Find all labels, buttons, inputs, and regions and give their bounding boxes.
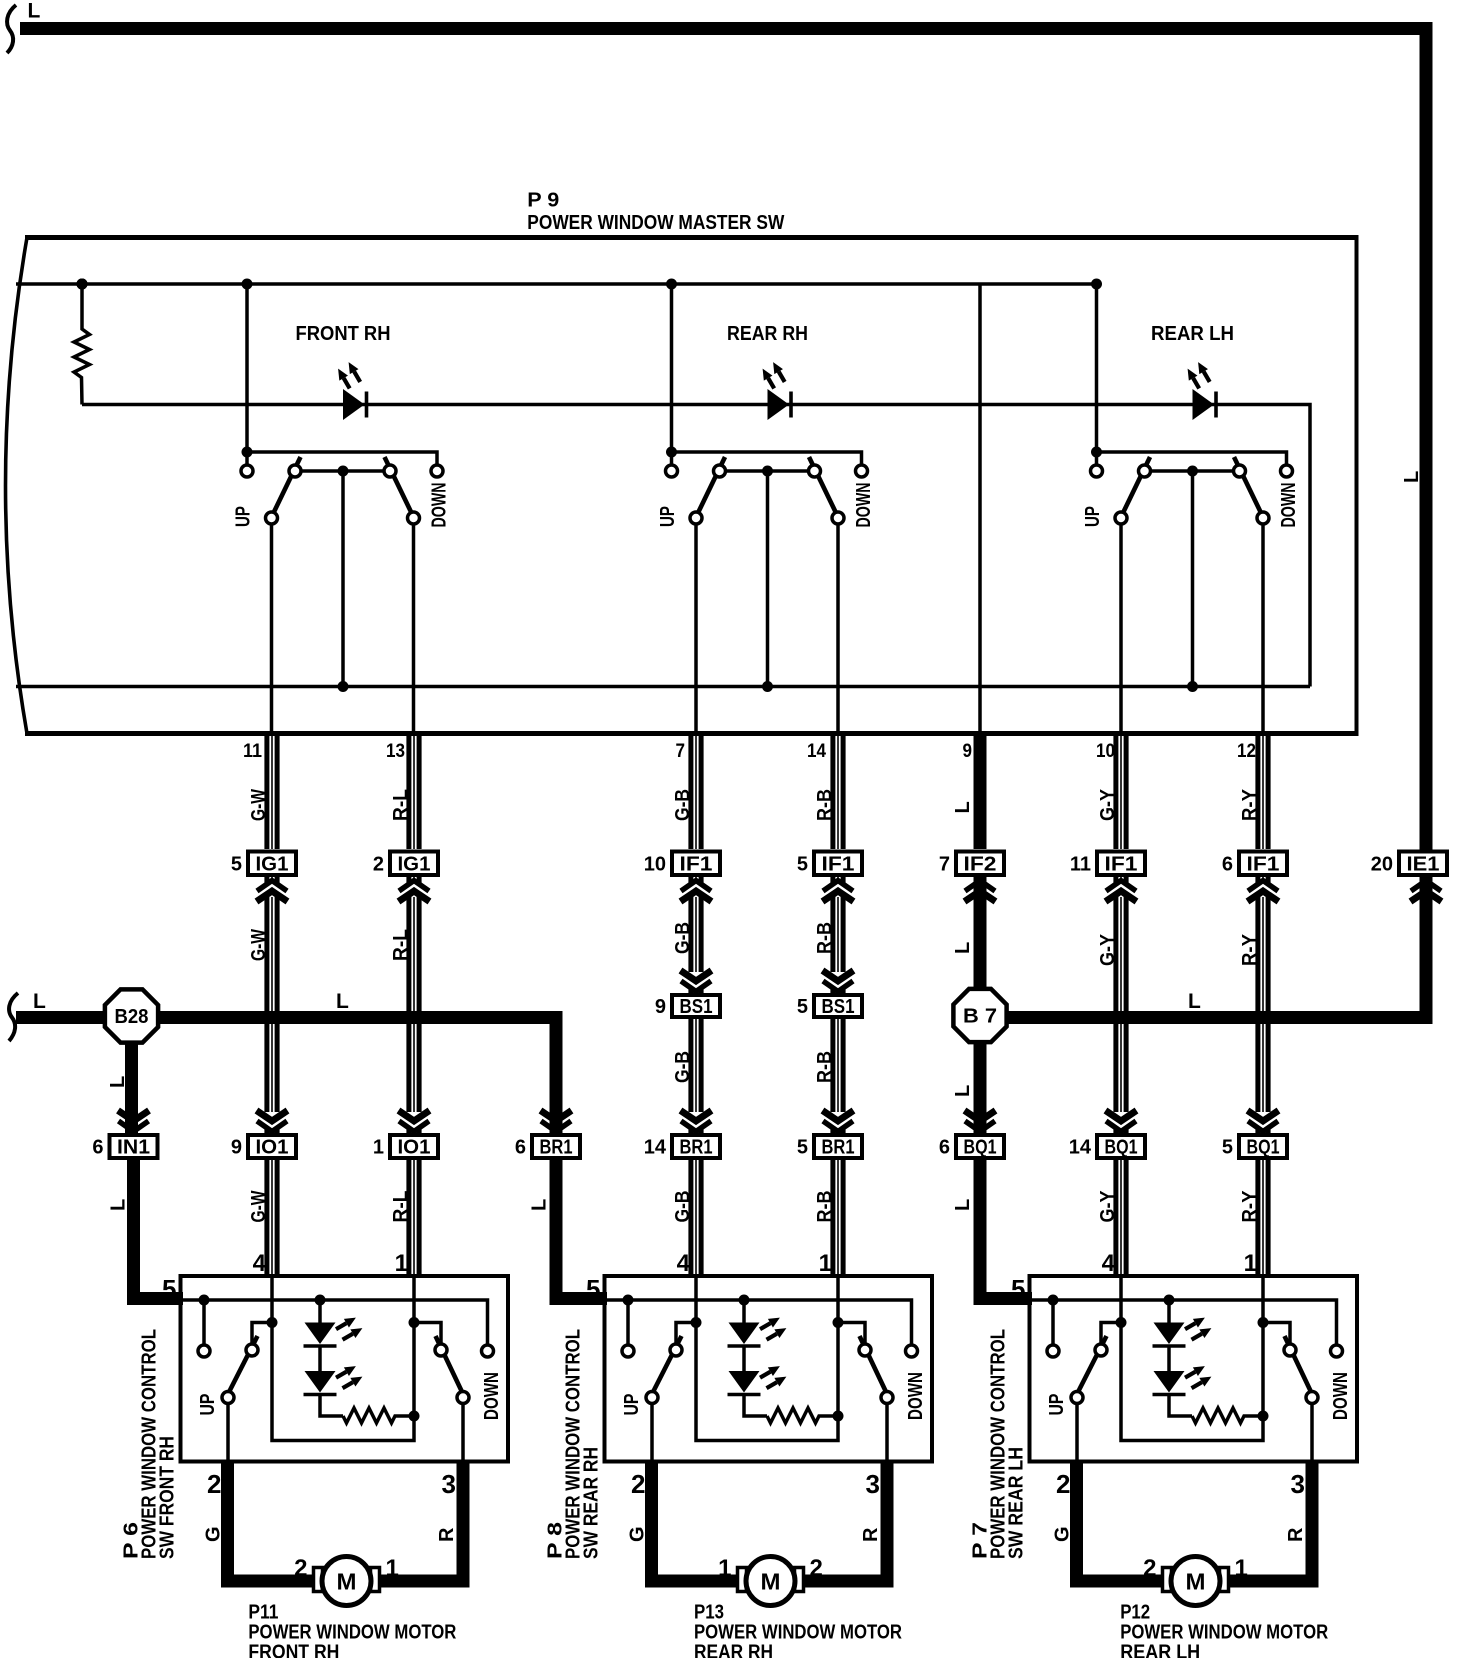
svg-text:7: 7 [676, 741, 686, 762]
svg-text:IE1: IE1 [1407, 853, 1440, 875]
svg-text:UP: UP [233, 506, 255, 527]
svg-text:P11: P11 [248, 1602, 278, 1624]
svg-text:R-Y: R-Y [1239, 1190, 1261, 1223]
svg-text:UP: UP [197, 1394, 219, 1416]
svg-text:L: L [107, 1076, 129, 1088]
svg-text:5: 5 [797, 1137, 808, 1159]
svg-text:G-W: G-W [248, 789, 270, 821]
svg-text:3: 3 [866, 1469, 880, 1499]
svg-text:UP: UP [657, 506, 679, 527]
svg-text:L: L [336, 990, 349, 1013]
svg-text:L: L [952, 1199, 974, 1211]
svg-text:UP: UP [1082, 506, 1104, 527]
svg-text:BQ1: BQ1 [1105, 1137, 1138, 1159]
svg-text:L: L [529, 1199, 551, 1211]
svg-text:20: 20 [1371, 853, 1393, 875]
svg-text:P13: P13 [694, 1602, 724, 1624]
svg-text:4: 4 [253, 1250, 267, 1277]
svg-text:POWER WINDOW MASTER SW: POWER WINDOW MASTER SW [527, 212, 784, 234]
svg-text:POWER WINDOW MOTOR: POWER WINDOW MOTOR [694, 1622, 902, 1644]
svg-text:IF1: IF1 [1105, 853, 1138, 875]
svg-text:3: 3 [442, 1469, 456, 1499]
svg-text:2: 2 [294, 1555, 307, 1582]
svg-text:REAR RH: REAR RH [694, 1642, 773, 1658]
svg-text:L: L [952, 801, 974, 813]
svg-text:R-B: R-B [814, 789, 836, 821]
svg-text:IF1: IF1 [680, 853, 713, 875]
svg-text:IO1: IO1 [256, 1137, 289, 1159]
svg-text:R-L: R-L [390, 929, 412, 961]
svg-text:6: 6 [1222, 853, 1233, 875]
svg-text:G-Y: G-Y [1097, 1190, 1119, 1223]
svg-text:B28: B28 [115, 1006, 149, 1028]
svg-text:M: M [337, 1569, 357, 1595]
svg-text:10: 10 [644, 853, 666, 875]
svg-text:1: 1 [1235, 1555, 1248, 1582]
svg-text:SW REAR RH: SW REAR RH [581, 1447, 603, 1559]
svg-text:IF2: IF2 [964, 853, 997, 875]
svg-text:R-B: R-B [814, 1191, 836, 1223]
svg-text:6: 6 [515, 1137, 526, 1159]
svg-text:BQ1: BQ1 [1247, 1137, 1280, 1159]
svg-text:9: 9 [655, 996, 666, 1018]
svg-text:G: G [203, 1526, 225, 1542]
svg-text:IF1: IF1 [822, 853, 855, 875]
svg-text:DOWN: DOWN [481, 1372, 503, 1420]
svg-text:REAR RH: REAR RH [727, 323, 808, 345]
svg-text:IN1: IN1 [117, 1137, 150, 1159]
svg-text:L: L [108, 1199, 130, 1211]
svg-text:5: 5 [797, 996, 808, 1018]
svg-text:POWER WINDOW MOTOR: POWER WINDOW MOTOR [248, 1622, 456, 1644]
svg-text:R-Y: R-Y [1239, 788, 1261, 821]
svg-text:5: 5 [1222, 1137, 1233, 1159]
svg-text:2: 2 [810, 1555, 823, 1582]
svg-text:R: R [860, 1527, 882, 1542]
svg-text:DOWN: DOWN [1330, 1372, 1352, 1420]
svg-text:BR1: BR1 [822, 1137, 855, 1159]
svg-text:1: 1 [718, 1555, 731, 1582]
svg-text:13: 13 [386, 741, 405, 762]
svg-text:1: 1 [819, 1250, 832, 1277]
svg-text:9: 9 [231, 1137, 242, 1159]
svg-text:R-Y: R-Y [1239, 933, 1261, 966]
svg-text:G-Y: G-Y [1097, 788, 1119, 821]
svg-text:3: 3 [1291, 1469, 1305, 1499]
svg-text:L: L [33, 990, 46, 1013]
svg-text:1: 1 [386, 1555, 399, 1582]
svg-text:DOWN: DOWN [905, 1372, 927, 1420]
svg-text:L: L [28, 0, 41, 23]
svg-text:2: 2 [207, 1469, 221, 1499]
svg-text:11: 11 [1070, 853, 1091, 875]
svg-text:FRONT RH: FRONT RH [296, 323, 391, 345]
svg-text:14: 14 [1069, 1137, 1092, 1159]
svg-text:2: 2 [1056, 1469, 1070, 1499]
svg-text:IO1: IO1 [398, 1137, 431, 1159]
svg-text:6: 6 [92, 1137, 103, 1159]
svg-text:B 7: B 7 [963, 1006, 997, 1028]
svg-text:P 9: P 9 [527, 190, 559, 212]
svg-text:G-W: G-W [248, 1190, 270, 1222]
svg-text:G-W: G-W [248, 929, 270, 961]
svg-text:BR1: BR1 [540, 1137, 573, 1159]
svg-text:G-B: G-B [672, 1051, 694, 1083]
svg-text:BR1: BR1 [680, 1137, 713, 1159]
svg-text:DOWN: DOWN [853, 483, 875, 528]
svg-text:5: 5 [586, 1274, 600, 1304]
svg-text:R-B: R-B [814, 922, 836, 954]
svg-text:REAR LH: REAR LH [1120, 1642, 1200, 1658]
svg-text:5: 5 [1011, 1274, 1025, 1304]
svg-text:R-B: R-B [814, 1051, 836, 1083]
svg-text:7: 7 [939, 853, 950, 875]
svg-text:UP: UP [1046, 1394, 1068, 1416]
svg-text:IG1: IG1 [398, 853, 431, 875]
svg-text:5: 5 [162, 1274, 176, 1304]
svg-text:1: 1 [1244, 1250, 1257, 1277]
svg-text:G: G [1052, 1526, 1074, 1542]
svg-text:R: R [1285, 1527, 1307, 1542]
svg-text:2: 2 [631, 1469, 645, 1499]
svg-text:L: L [1401, 471, 1423, 483]
svg-text:1: 1 [395, 1250, 408, 1277]
svg-text:BS1: BS1 [680, 996, 713, 1018]
svg-text:12: 12 [1237, 741, 1256, 762]
svg-text:IG1: IG1 [256, 853, 289, 875]
svg-text:4: 4 [677, 1250, 691, 1277]
svg-text:BS1: BS1 [822, 996, 855, 1018]
svg-text:R-L: R-L [390, 789, 412, 821]
svg-text:FRONT RH: FRONT RH [248, 1642, 339, 1658]
svg-text:L: L [952, 942, 974, 954]
svg-text:5: 5 [797, 853, 808, 875]
svg-text:14: 14 [644, 1137, 667, 1159]
svg-text:2: 2 [373, 853, 384, 875]
svg-text:R: R [436, 1527, 458, 1542]
svg-text:1: 1 [373, 1137, 384, 1159]
svg-text:G-B: G-B [672, 789, 694, 821]
svg-text:10: 10 [1096, 741, 1115, 762]
svg-text:SW REAR LH: SW REAR LH [1006, 1447, 1028, 1559]
svg-text:POWER WINDOW MOTOR: POWER WINDOW MOTOR [1120, 1622, 1328, 1644]
svg-text:14: 14 [807, 741, 826, 762]
svg-text:9: 9 [963, 741, 973, 762]
svg-text:G-B: G-B [672, 1191, 694, 1223]
svg-text:SW FRONT RH: SW FRONT RH [157, 1436, 179, 1559]
svg-text:11: 11 [243, 741, 262, 762]
svg-text:DOWN: DOWN [1278, 483, 1300, 528]
svg-text:P12: P12 [1120, 1602, 1150, 1624]
svg-text:G: G [627, 1526, 649, 1542]
svg-text:BQ1: BQ1 [964, 1137, 997, 1159]
svg-text:5: 5 [231, 853, 242, 875]
svg-text:R-L: R-L [390, 1191, 412, 1223]
svg-text:UP: UP [621, 1394, 643, 1416]
svg-text:DOWN: DOWN [429, 483, 451, 528]
svg-text:M: M [1186, 1569, 1206, 1595]
svg-text:L: L [952, 1085, 974, 1097]
svg-text:6: 6 [939, 1137, 950, 1159]
svg-text:4: 4 [1102, 1250, 1116, 1277]
svg-text:G-Y: G-Y [1097, 933, 1119, 966]
svg-text:G-B: G-B [672, 922, 694, 954]
svg-text:REAR LH: REAR LH [1151, 323, 1234, 345]
svg-text:M: M [761, 1569, 781, 1595]
svg-text:L: L [1188, 990, 1201, 1013]
svg-text:IF1: IF1 [1247, 853, 1280, 875]
svg-text:2: 2 [1143, 1555, 1156, 1582]
